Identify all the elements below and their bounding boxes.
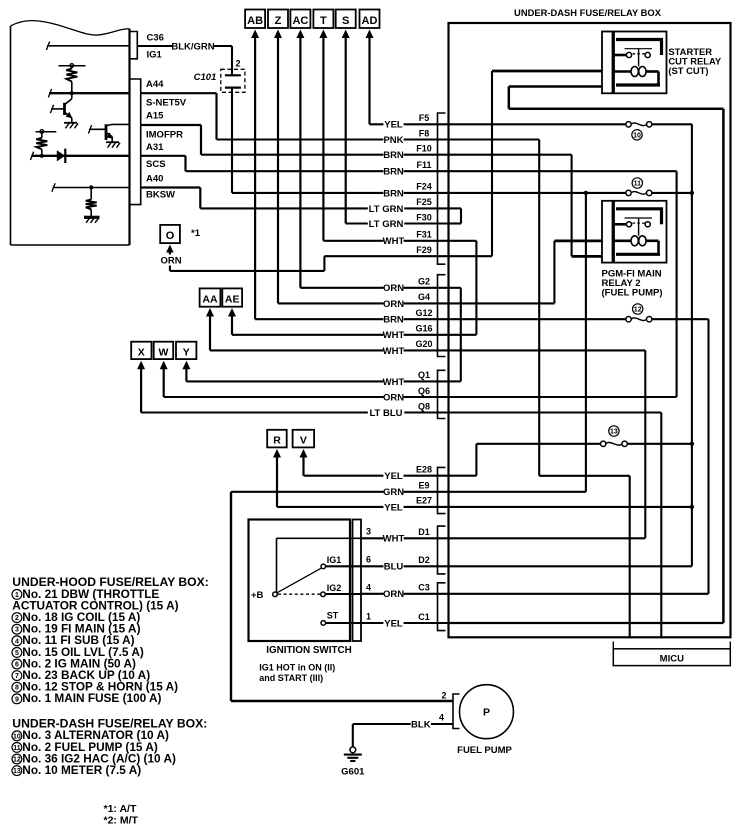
connector bracket A-group (A44..BKSW)	[130, 79, 141, 205]
svg-text:BRN: BRN	[383, 315, 404, 326]
legend item 5 No. 15 OIL LVL (7.5 A)	[12, 645, 144, 659]
svg-text:4: 4	[15, 638, 19, 645]
svg-text:D2: D2	[418, 555, 430, 565]
ignition switch box	[249, 520, 351, 642]
wire A40/BKSW to F25 row (LT GRN)	[141, 188, 449, 209]
wire S column to F30 row (LT GRN)	[346, 34, 449, 224]
ignition switch IG2 contact	[321, 592, 326, 597]
svg-text:YEL: YEL	[384, 471, 403, 482]
legend item 4 No. 11 FI SUB (15 A)	[12, 633, 135, 647]
legend item 3 No. 19 FI MAIN (15 A)	[12, 622, 141, 636]
svg-text:S-NET5V: S-NET5V	[146, 97, 187, 108]
svg-text:YEL: YEL	[384, 120, 403, 131]
svg-text:Q8: Q8	[418, 401, 430, 411]
svg-text:2: 2	[236, 59, 241, 69]
svg-text:F30: F30	[416, 212, 432, 222]
svg-text:12: 12	[634, 307, 642, 314]
svg-text:(ST CUT): (ST CUT)	[668, 65, 708, 76]
wire color label WHT (G16)	[383, 329, 403, 340]
wire F31 row to G16 row	[449, 241, 477, 335]
connector box Z	[268, 10, 288, 29]
arrow into connector AB	[251, 30, 259, 39]
ground (ECM R3, heavy bar)	[84, 217, 100, 223]
wire color label BLK	[411, 718, 431, 729]
wire color label ORN (G4)	[383, 298, 403, 309]
svg-text:D1: D1	[418, 527, 430, 537]
wire C36 row inside ECM	[46, 42, 129, 50]
wire color label WHT (Q1)	[383, 376, 403, 387]
svg-text:BRN: BRN	[383, 167, 404, 178]
fuse number label 13	[609, 426, 619, 436]
wire color label BRN (F24)	[383, 187, 403, 198]
svg-text:WHT: WHT	[383, 377, 405, 388]
wire X column to Q8 row (LT BLU)	[141, 367, 448, 413]
connector box AB	[245, 10, 265, 29]
svg-text:AB: AB	[247, 15, 263, 27]
svg-text:UNDER-DASH FUSE/RELAY BOX: UNDER-DASH FUSE/RELAY BOX	[514, 7, 662, 18]
svg-text:6: 6	[15, 662, 19, 669]
arrow into connector W	[160, 361, 168, 370]
legend item 12 No. 36 IG2 HAC (A/C) (10 A)	[12, 751, 176, 765]
wire F25 to F30 jumper	[449, 208, 462, 223]
connector box R	[267, 430, 287, 448]
svg-text:Q1: Q1	[418, 370, 430, 380]
legend item 11 No. 2 FUEL PUMP (15 A)	[12, 740, 158, 754]
wire AA column to G20 row (WHT)	[210, 314, 449, 350]
wire A31 row inside ECM	[30, 152, 129, 160]
svg-text:No. 1 MAIN FUSE (100 A): No. 1 MAIN FUSE (100 A)	[22, 691, 161, 705]
svg-text:WHT: WHT	[383, 534, 405, 545]
legend item 13 No. 10 METER (7.5 A)	[12, 763, 141, 777]
connector box Y	[176, 342, 196, 359]
node tap circle above resistor R2	[36, 130, 57, 134]
svg-text:IMOFPR: IMOFPR	[146, 130, 183, 141]
svg-text:T: T	[320, 15, 327, 27]
diode D1 on A31 row	[57, 149, 66, 163]
relay: STARTER CUT RELAY (contacts, coil)	[602, 32, 667, 94]
wire D2 row to junction riser	[449, 565, 692, 567]
fuse number label 10	[632, 130, 642, 140]
wire fuse 11 output to junction riser	[652, 192, 692, 194]
wire B to pin 3 (inside switch)	[277, 538, 362, 592]
dashed link B-IG2	[278, 593, 320, 595]
svg-text:R: R	[273, 435, 281, 447]
svg-text:3: 3	[366, 526, 371, 536]
svg-text:10: 10	[633, 132, 641, 139]
fuse 12 (No. 36 IG2 HAC)	[626, 317, 652, 322]
svg-text:13: 13	[13, 768, 21, 775]
svg-text:S: S	[342, 15, 349, 27]
arrow into connector T	[319, 30, 327, 39]
wire C1 row into box	[449, 622, 724, 624]
wire color label ORN (C3)	[383, 588, 403, 599]
svg-text:6: 6	[366, 555, 371, 565]
wire color label PNK (F8)	[383, 134, 403, 145]
connector box S	[336, 10, 356, 29]
node junction resistor R2 / A31	[40, 154, 44, 158]
legend item 8 No. 12 STOP & HORN (15 A)	[12, 680, 178, 694]
svg-text:O: O	[166, 230, 175, 242]
svg-text:No. 10 METER (7.5 A): No. 10 METER (7.5 A)	[22, 763, 141, 777]
svg-text:G4: G4	[418, 292, 430, 302]
ignition switch connector bar	[353, 520, 362, 642]
svg-text:BRN: BRN	[383, 188, 404, 199]
svg-text:AE: AE	[225, 294, 240, 306]
relay: PGM-FI MAIN RELAY 2 (contacts, coil)	[602, 201, 667, 263]
wire BLK to ground G601	[352, 724, 354, 747]
svg-text:LT BLU: LT BLU	[369, 408, 402, 419]
wire F8 row to E28 junction	[449, 140, 630, 476]
connector box V	[293, 430, 315, 448]
arrow into connector AC	[296, 30, 304, 39]
svg-text:G2: G2	[418, 277, 430, 287]
wire pin 1 to C1 row (YEL)	[361, 622, 449, 624]
component label STARTER CUT RELAY (ST CUT)	[668, 46, 722, 76]
svg-text:2: 2	[441, 691, 446, 701]
wire riser to MICU (left)	[629, 476, 631, 638]
wire color label ORN (Q6)	[383, 391, 403, 402]
wire color label BRN (F10)	[383, 149, 403, 160]
wire F5 row to fuse 10	[449, 123, 626, 125]
wire E9 row to fuel pump feed (GRN)	[231, 492, 449, 701]
svg-text:G12: G12	[415, 308, 432, 318]
svg-text:IG2: IG2	[327, 583, 342, 593]
fuse number label 11	[632, 178, 642, 188]
svg-text:ST: ST	[327, 611, 339, 621]
MICU box	[613, 649, 730, 666]
wire C101 to F24 row (BRN)	[232, 88, 449, 193]
connector box X	[131, 342, 151, 359]
svg-text:IG1: IG1	[147, 50, 163, 61]
transistor Q1 (NPN, emitter grounded)	[50, 93, 72, 122]
svg-text:FUEL PUMP: FUEL PUMP	[457, 745, 512, 756]
svg-text:LT GRN: LT GRN	[369, 204, 404, 215]
wire F24 row to fuse 11	[449, 192, 627, 194]
svg-text:F25: F25	[416, 197, 432, 207]
svg-text:E27: E27	[416, 496, 432, 506]
wire A44/S-NET5V to F8 row (PNK)	[141, 93, 449, 139]
switch arm B-IG1	[277, 568, 322, 593]
connector box AA	[200, 288, 221, 306]
connector bracket E-group	[438, 467, 446, 513]
arrow into connector AA	[206, 308, 214, 317]
ignition switch ST contact	[321, 621, 326, 626]
svg-text:AD: AD	[362, 15, 378, 27]
svg-text:8: 8	[15, 685, 19, 692]
svg-text:F8: F8	[419, 128, 430, 138]
wire W column to Q6 row (ORN)	[164, 367, 449, 398]
connector box W	[154, 342, 174, 359]
wire color label YEL (F5)	[383, 119, 403, 130]
wire color label LT GRN (F25)	[368, 203, 405, 214]
resistor R2	[36, 133, 47, 156]
svg-text:V: V	[300, 435, 307, 447]
connector bracket F-group	[438, 113, 446, 264]
svg-text:11: 11	[634, 181, 642, 188]
connector box AD	[360, 10, 380, 29]
svg-text:F5: F5	[419, 113, 430, 123]
MICU connector ticks	[613, 642, 730, 649]
wire A40 row inside ECM	[52, 183, 130, 191]
wire F29 to starter cut relay coil	[449, 71, 603, 256]
svg-text:ORN: ORN	[383, 283, 404, 294]
ignition switch IG1 contact	[321, 564, 326, 569]
svg-text:LT GRN: LT GRN	[369, 219, 404, 230]
wire T column to F31 row (WHT)	[323, 34, 448, 241]
wire color label YEL (E28)	[383, 470, 403, 481]
wire fuel pump feed pin 2	[231, 700, 453, 703]
wire pin 4 to C3 row (ORN)	[361, 593, 449, 595]
ECM/PCM box outline (torn top edge)	[11, 21, 130, 245]
node junction E27 / riser	[690, 505, 694, 509]
node junction F24 / E9 riser	[584, 191, 588, 195]
legend item 1 No. 21 DBW (THROTTLE	[12, 587, 159, 601]
wire A15/IMOFPR to F10 row (BRN)	[141, 125, 449, 155]
svg-text:ORN: ORN	[383, 299, 404, 310]
svg-text:IG1: IG1	[327, 555, 342, 565]
svg-text:YEL: YEL	[384, 618, 403, 629]
svg-text:YEL: YEL	[384, 502, 403, 513]
svg-text:AC: AC	[292, 15, 308, 27]
wire A31/SCS to F11 row (BRN)	[141, 156, 449, 171]
wire color label BLU (D2)	[383, 561, 403, 572]
wire fuse 10 output to junction riser	[652, 124, 692, 566]
arrow into connector Y	[182, 361, 190, 370]
svg-text:F31: F31	[416, 230, 432, 240]
wire AB column to G12 row (BRN)	[255, 34, 448, 319]
svg-text:W: W	[158, 346, 168, 358]
svg-text:*1: A/T: *1: A/T	[104, 803, 137, 815]
wire A44 row inside ECM	[48, 89, 129, 97]
arrow into connector O	[166, 245, 174, 253]
component label PGM-FI MAIN RELAY 2 (FUEL PUMP)	[602, 269, 663, 299]
svg-text:SCS: SCS	[146, 159, 166, 170]
node tap circle above resistor R1	[59, 64, 86, 68]
wire AC column to G2 row (ORN)	[300, 34, 448, 288]
ground (ECM Q1 emitter)	[64, 122, 77, 124]
legend item 6 No. 2 IG MAIN (50 A)	[12, 656, 136, 670]
svg-text:X: X	[138, 346, 145, 358]
wire E28 row to fuse 13	[449, 444, 601, 476]
wire color label LT BLU (Q8)	[368, 407, 405, 418]
legend item 10 No. 3 ALTERNATOR (10 A)	[12, 728, 169, 742]
svg-text:ORN: ORN	[383, 392, 404, 403]
ground (ECM Q2 emitter)	[106, 141, 119, 143]
svg-text:A31: A31	[146, 142, 164, 153]
svg-text:A15: A15	[146, 110, 164, 121]
wire AE column to G16 row (WHT)	[232, 314, 449, 335]
svg-text:Y: Y	[183, 346, 190, 358]
svg-text:5: 5	[15, 650, 19, 657]
wire BLK/GRN from C36/IG1 bracket to C101	[137, 46, 232, 75]
svg-text:10: 10	[13, 733, 21, 740]
svg-text:and START (III): and START (III)	[259, 673, 323, 683]
wire pin 6 to D2 row (BLU)	[361, 565, 449, 567]
arrow into connector AD	[366, 30, 374, 39]
svg-text:MICU: MICU	[660, 654, 684, 665]
connector bracket D-group	[438, 526, 446, 574]
wire ORN from O connector to F29 row	[170, 252, 449, 271]
svg-text:2: 2	[15, 615, 19, 622]
wire E27 row to junction riser	[449, 506, 692, 508]
wire G2 row to Q1 row jumper	[449, 288, 461, 382]
svg-text:F24: F24	[416, 182, 432, 192]
fuel pump connector bracket	[453, 694, 460, 729]
ground G601 symbol	[344, 747, 362, 761]
svg-text:11: 11	[13, 745, 21, 752]
svg-text:E9: E9	[418, 481, 429, 491]
svg-text:13: 13	[610, 429, 618, 436]
connector box AE	[222, 288, 242, 306]
wire ST to pin 1	[326, 622, 361, 624]
wire V column to E28 row (YEL)	[304, 455, 449, 476]
arrow into connector AE	[228, 308, 236, 317]
wire color label BRN (F11)	[383, 165, 403, 176]
fuel pump motor P	[460, 685, 514, 739]
wire color label GRN (E9)	[383, 486, 403, 497]
wire AD column to F5 row (YEL)	[370, 34, 449, 124]
wire G4 row to PGM-FI main relay 2	[449, 241, 603, 304]
wire color label ORN (G2)	[383, 282, 403, 293]
connector bracket C36/IG1	[130, 32, 137, 59]
connector box O	[160, 225, 180, 243]
wire color label ORN (O connector)	[161, 255, 181, 266]
svg-text:Q6: Q6	[418, 386, 430, 396]
resistor R1	[66, 67, 77, 93]
connector bracket G-group	[438, 275, 446, 357]
wire fuse 12 output to C3 row	[449, 319, 709, 594]
under-dash fuse/relay box outline	[449, 23, 731, 637]
svg-text:F29: F29	[416, 245, 432, 255]
connector bracket C-group	[438, 583, 446, 631]
wire R column to E27 row (YEL)	[277, 455, 449, 507]
legend item 7 No. 23 BACK UP (10 A)	[12, 668, 150, 682]
svg-text:G16: G16	[415, 324, 432, 334]
ignition switch B contact	[273, 592, 278, 597]
node junction fuse 13 output	[690, 442, 694, 446]
svg-text:4: 4	[439, 713, 444, 723]
arrow into connector V	[300, 449, 308, 458]
arrow into connector Z	[274, 30, 282, 39]
fuse 10 (No. 3 ALTERNATOR)	[626, 122, 652, 127]
svg-text:C101: C101	[194, 72, 217, 83]
resistor R3	[86, 188, 97, 217]
wire G20 row to D1 row	[449, 350, 646, 538]
svg-text:ORN: ORN	[160, 256, 181, 267]
arrow into connector R	[273, 449, 281, 458]
svg-text:C1: C1	[418, 612, 430, 622]
svg-text:(FUEL PUMP): (FUEL PUMP)	[602, 288, 663, 299]
svg-text:BKSW: BKSW	[146, 190, 175, 201]
svg-text:Z: Z	[275, 15, 282, 27]
svg-text:12: 12	[13, 757, 21, 764]
svg-text:G601: G601	[341, 767, 365, 778]
svg-text:IG1 HOT in ON (II): IG1 HOT in ON (II)	[259, 662, 335, 672]
svg-text:E28: E28	[416, 465, 432, 475]
wire Z column to G4 row (ORN)	[278, 34, 449, 303]
svg-text:ORN: ORN	[383, 589, 404, 600]
fuse 13 (No. 10 METER)	[601, 441, 628, 446]
wire color label BRN (G12)	[383, 313, 403, 324]
wire color label LT GRN (F30)	[368, 218, 405, 229]
svg-text:BRN: BRN	[383, 150, 404, 161]
svg-text:C36: C36	[147, 32, 164, 43]
wire fuel pump ground pin 4 (BLK)	[353, 723, 453, 725]
wire color label WHT (D1)	[383, 533, 403, 544]
fuse 11 (No. 2 FUEL PUMP)	[626, 190, 652, 195]
svg-text:BLK: BLK	[411, 719, 431, 730]
svg-text:IGNITION SWITCH: IGNITION SWITCH	[266, 645, 352, 656]
svg-text:A44: A44	[146, 79, 164, 90]
node junction resistor R1 / A44	[70, 91, 74, 95]
capacitor C101	[221, 69, 245, 92]
svg-text:C3: C3	[418, 583, 430, 593]
svg-text:9: 9	[15, 696, 19, 703]
svg-text:A40: A40	[146, 173, 163, 184]
wire color label YEL (E27)	[383, 501, 403, 512]
wire junction riser F24 to E9 row	[449, 193, 586, 492]
svg-text:1: 1	[366, 611, 371, 621]
wire IG2 to pin 4	[325, 593, 361, 595]
node junction A40 / resistor R3	[89, 185, 93, 189]
wire pin 3 to D1 row (WHT)	[361, 537, 449, 539]
wire color label BLK/GRN	[172, 40, 214, 51]
svg-text:*2: M/T: *2: M/T	[104, 815, 139, 827]
svg-text:7: 7	[15, 673, 19, 680]
svg-text:P: P	[483, 707, 490, 719]
connector box AC	[290, 10, 310, 29]
wire color label WHT (F31)	[383, 235, 403, 246]
svg-text:WHT: WHT	[383, 330, 405, 341]
svg-text:4: 4	[366, 582, 371, 592]
svg-text:3: 3	[15, 627, 19, 634]
wire starter cut relay to C1 feed riser	[509, 87, 724, 624]
arrow into connector S	[342, 30, 350, 39]
legend item 2 No. 18 IG COIL (15 A)	[12, 610, 140, 624]
connector box T	[313, 10, 333, 29]
svg-text:WHT: WHT	[383, 346, 405, 357]
wire F11 row to Q6 row	[449, 171, 677, 397]
svg-text:WHT: WHT	[383, 236, 405, 247]
wire IG1 to pin 6	[326, 565, 361, 567]
svg-text:PNK: PNK	[383, 135, 403, 146]
wire G12 row to fuse 12	[449, 318, 627, 320]
wire color label YEL (C1)	[383, 617, 403, 628]
wire F10 row to PGM-FI main relay 2	[449, 155, 603, 257]
svg-text:GRN: GRN	[383, 487, 404, 498]
svg-text:*1: *1	[191, 228, 201, 239]
svg-text:BLU: BLU	[384, 562, 404, 573]
wire Q8 row to MICU (right riser)	[449, 413, 662, 638]
svg-text:F11: F11	[416, 160, 431, 170]
svg-text:+B: +B	[251, 590, 264, 601]
arrow into connector X	[137, 361, 145, 370]
wire Y column to Q1 row (WHT)	[186, 367, 448, 382]
transistor Q2 (NPN, collector to A15 row)	[88, 124, 129, 142]
node junction fuse 11 output	[690, 191, 694, 195]
svg-text:BLK/GRN: BLK/GRN	[171, 41, 214, 52]
svg-text:AA: AA	[202, 294, 218, 306]
wire fuse 13 output to junction riser	[627, 443, 692, 445]
connector bracket Q-group	[438, 370, 446, 418]
svg-text:F10: F10	[416, 144, 432, 154]
svg-text:G20: G20	[415, 339, 432, 349]
fuse number label 12	[633, 304, 643, 314]
legend item 9 No. 1 MAIN FUSE (100 A)	[12, 691, 162, 705]
wire color label WHT (G20)	[383, 345, 403, 356]
